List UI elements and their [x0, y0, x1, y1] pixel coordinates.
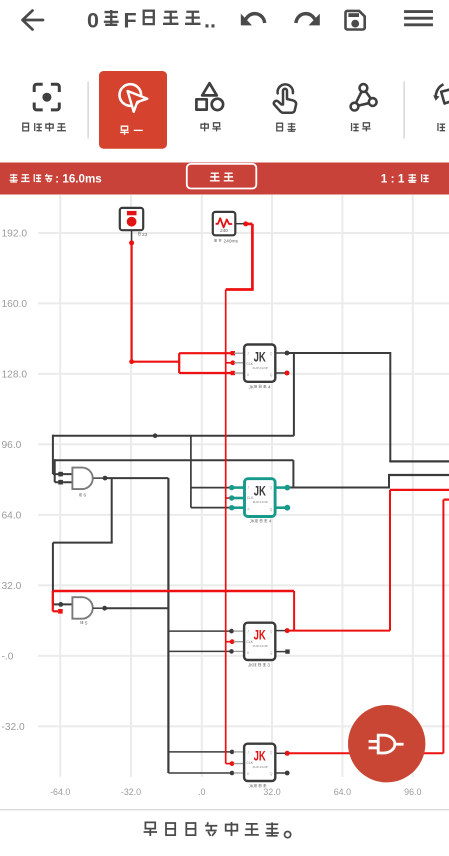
wire corner to JK4 CLK [226, 763, 232, 765]
svg-text:Q: Q [270, 751, 273, 755]
status text 元素延迟: 16.0ms [10, 173, 102, 186]
JK2 output pin dots [284, 485, 290, 511]
tool label 单一 (white) [120, 126, 143, 135]
push button label [138, 232, 147, 238]
svg-text:128.0: 128.0 [2, 369, 28, 380]
svg-text:J: J [247, 630, 249, 634]
svg-text:6: 6 [84, 493, 87, 498]
wire push-button to JK1 J/K [132, 243, 233, 373]
tool label 连接 [352, 123, 371, 132]
wire Q1 branch down to h1 [293, 353, 295, 436]
svg-text:FLIP-FLOP: FLIP-FLOP [253, 765, 268, 769]
wire stub to JK2 CLK [226, 497, 232, 499]
svg-text:JK: JK [254, 628, 266, 643]
svg-text:-.0: -.0 [2, 651, 14, 662]
toolbar row background [0, 57, 449, 163]
svg-text:96.0: 96.0 [404, 787, 421, 797]
x axis labels [50, 787, 421, 797]
svg-text:32.0: 32.0 [263, 787, 280, 797]
toolbar divider 2 [404, 82, 405, 139]
svg-text:Q: Q [270, 352, 273, 356]
top app bar background [0, 0, 449, 57]
JK2 input pin dots [229, 485, 234, 511]
AND gate G2 [72, 597, 102, 619]
JK4 J pin terminal [230, 750, 235, 755]
JK1 K pin terminal [231, 371, 235, 375]
JK3 Qbar output pin terminal [285, 649, 289, 653]
svg-text:J: J [247, 751, 249, 755]
tool: single-select (active, red) [99, 71, 167, 149]
wire h1 (Q1 horizontal run) [53, 435, 294, 437]
wire Q2 branch up to h2 [292, 460, 294, 487]
menu (hamburger) icon [406, 12, 432, 25]
JK1 CLK pin terminal [230, 360, 235, 365]
app title 0至F计数器.. [87, 9, 216, 33]
svg-text:JK: JK [250, 519, 256, 524]
y axis labels [2, 228, 28, 732]
svg-text:Q: Q [270, 486, 273, 490]
JK1 J pin terminal [231, 351, 235, 355]
svg-text:3: 3 [267, 663, 270, 668]
AND gate G1 [72, 468, 103, 490]
wire to JK4 K input [168, 772, 232, 774]
red status bar [0, 163, 449, 195]
back arrow icon [23, 11, 44, 30]
collapse button 折叠 [187, 164, 256, 189]
JK flip-flop U4 [244, 744, 275, 781]
JK flip-flop U4 pin stubs [234, 752, 286, 773]
svg-text:Q: Q [270, 508, 273, 512]
JK flip-flop U3 pin stubs [234, 631, 286, 652]
clock pin junction dot [243, 221, 248, 226]
AND1 label [79, 493, 86, 498]
JK4 K pin terminal [230, 771, 235, 776]
svg-text:240: 240 [220, 228, 228, 233]
AND1 output junction dot [103, 476, 108, 481]
wire to JK4 J input [168, 751, 232, 753]
svg-text:JK: JK [254, 749, 266, 764]
JK3 label [248, 663, 270, 668]
svg-text:-32.0: -32.0 [2, 722, 26, 733]
toolbar divider [88, 82, 89, 139]
JK3 K pin terminal [229, 649, 234, 654]
wire Q2 output to right edge [286, 475, 449, 489]
tool label 多重 [201, 123, 221, 132]
svg-text:4: 4 [269, 519, 272, 524]
wire to JK3 K input [168, 650, 231, 652]
svg-text:FLIP-FLOP: FLIP-FLOP [253, 500, 268, 504]
tool label 轮 (clipped) [438, 123, 445, 131]
clock label [214, 238, 238, 244]
wire Q3 output to right edge and to AND2 [53, 490, 449, 631]
wire to JK3 J input [168, 630, 231, 632]
svg-text:0: 0 [87, 9, 99, 33]
svg-text:JK: JK [254, 484, 266, 499]
tool: connect icon [351, 84, 377, 110]
JK flip-flop U2 pin stubs (selected) [232, 488, 288, 508]
bottom toast bar [0, 810, 449, 856]
push button component [120, 208, 143, 242]
JK4 Qbar output pin terminal [285, 771, 290, 776]
JK2 label [250, 519, 272, 524]
svg-text:.0: .0 [198, 787, 205, 797]
svg-text:JK: JK [249, 784, 255, 789]
wire h2 down to AND1 input 2 [55, 459, 73, 482]
wire Q1 output to right edge [287, 352, 449, 461]
wire branch to JK2 J/K inputs [191, 436, 232, 508]
tool label 点击 [277, 123, 296, 131]
svg-text:64.0: 64.0 [334, 787, 351, 797]
svg-text:J: J [248, 486, 250, 490]
svg-text:JK: JK [248, 663, 254, 668]
wire AND1 output run [105, 478, 168, 773]
svg-text:Q: Q [270, 373, 273, 377]
svg-text:FLIP-FLOP: FLIP-FLOP [253, 366, 268, 370]
JK flip-flop U1 pin stubs [234, 353, 286, 373]
AND1 input 1 pin terminal [58, 472, 63, 477]
wire h1 down to AND1 input 1 [53, 435, 73, 474]
floating action button (power plug) [348, 705, 425, 782]
svg-text:F: F [124, 9, 137, 33]
wire branch AND1 out to AND2 input 1 [53, 478, 113, 604]
save icon [346, 11, 365, 30]
AND2 output junction dot [102, 606, 107, 611]
wire stub to JK3 CLK [226, 641, 232, 643]
JK4 CLK pin terminal [230, 761, 235, 766]
push button pin junction [129, 240, 134, 245]
JK1 label [249, 384, 271, 389]
button wire junction [129, 359, 134, 364]
wire clock output down the canvas [226, 224, 254, 764]
tool: tap/click icon [274, 84, 296, 112]
svg-text:160.0: 160.0 [2, 299, 28, 310]
junction on h1 [153, 433, 158, 438]
JK3 J pin terminal [229, 629, 234, 634]
svg-text:5: 5 [85, 620, 88, 625]
svg-text:192.0: 192.0 [2, 228, 28, 239]
svg-text:32.0: 32.0 [2, 581, 22, 592]
tool: outline (partial) icon [433, 84, 449, 103]
undo icon [241, 14, 265, 26]
svg-text:23: 23 [142, 232, 148, 238]
JK flip-flop U2 (selected) [245, 479, 276, 517]
svg-text:JK: JK [249, 384, 255, 389]
wire AND2 output to bus [105, 607, 169, 609]
svg-text:: 16.0ms: : 16.0ms [55, 173, 101, 186]
svg-text:64.0: 64.0 [2, 510, 22, 521]
clock component [213, 212, 244, 235]
JK4 label [249, 784, 267, 789]
svg-text:240ms: 240ms [224, 238, 239, 244]
AND2 input 2 pin terminal [58, 609, 63, 614]
svg-text:Q: Q [270, 630, 273, 634]
JK flip-flop U3 [244, 623, 275, 660]
AND2 input 1 pin terminal [58, 602, 63, 607]
Q4 output junction dot [285, 751, 290, 756]
JK1 Q output junction dot [285, 351, 290, 356]
status text 1:1 即时 [381, 172, 429, 186]
AND2 label [81, 620, 88, 625]
svg-text:..: .. [204, 9, 216, 33]
redo icon [296, 14, 320, 26]
svg-text:J: J [247, 352, 249, 356]
JK flip-flop U1 [244, 345, 275, 382]
svg-text:96.0: 96.0 [2, 440, 22, 451]
tool: multi-select icon [196, 83, 223, 110]
svg-text:4: 4 [268, 384, 271, 389]
AND1 input 2 pin terminal [58, 480, 63, 485]
svg-text:FLIP-FLOP: FLIP-FLOP [253, 644, 268, 648]
canvas background [0, 195, 449, 810]
svg-text:Q: Q [270, 772, 273, 776]
svg-text:JK: JK [254, 350, 266, 365]
svg-text:1 : 1: 1 : 1 [381, 172, 405, 186]
svg-text:Q: Q [270, 651, 273, 655]
JK3 CLK pin terminal [230, 639, 235, 644]
toast text 单选模式已激活。 [144, 822, 291, 838]
svg-text:-32.0: -32.0 [121, 787, 141, 797]
svg-text:-64.0: -64.0 [50, 787, 70, 797]
Q3 output junction dot [285, 628, 290, 633]
tool: scroll-back (focus) icon [34, 84, 59, 110]
JK1 Qbar output pin terminal [285, 371, 290, 376]
wire h2 (Q2 horizontal run) [55, 459, 294, 461]
wire stub to JK1 CLK [226, 362, 233, 364]
wire Q4 output to right edge [287, 500, 449, 754]
tool label 向后滚动 [23, 123, 66, 132]
